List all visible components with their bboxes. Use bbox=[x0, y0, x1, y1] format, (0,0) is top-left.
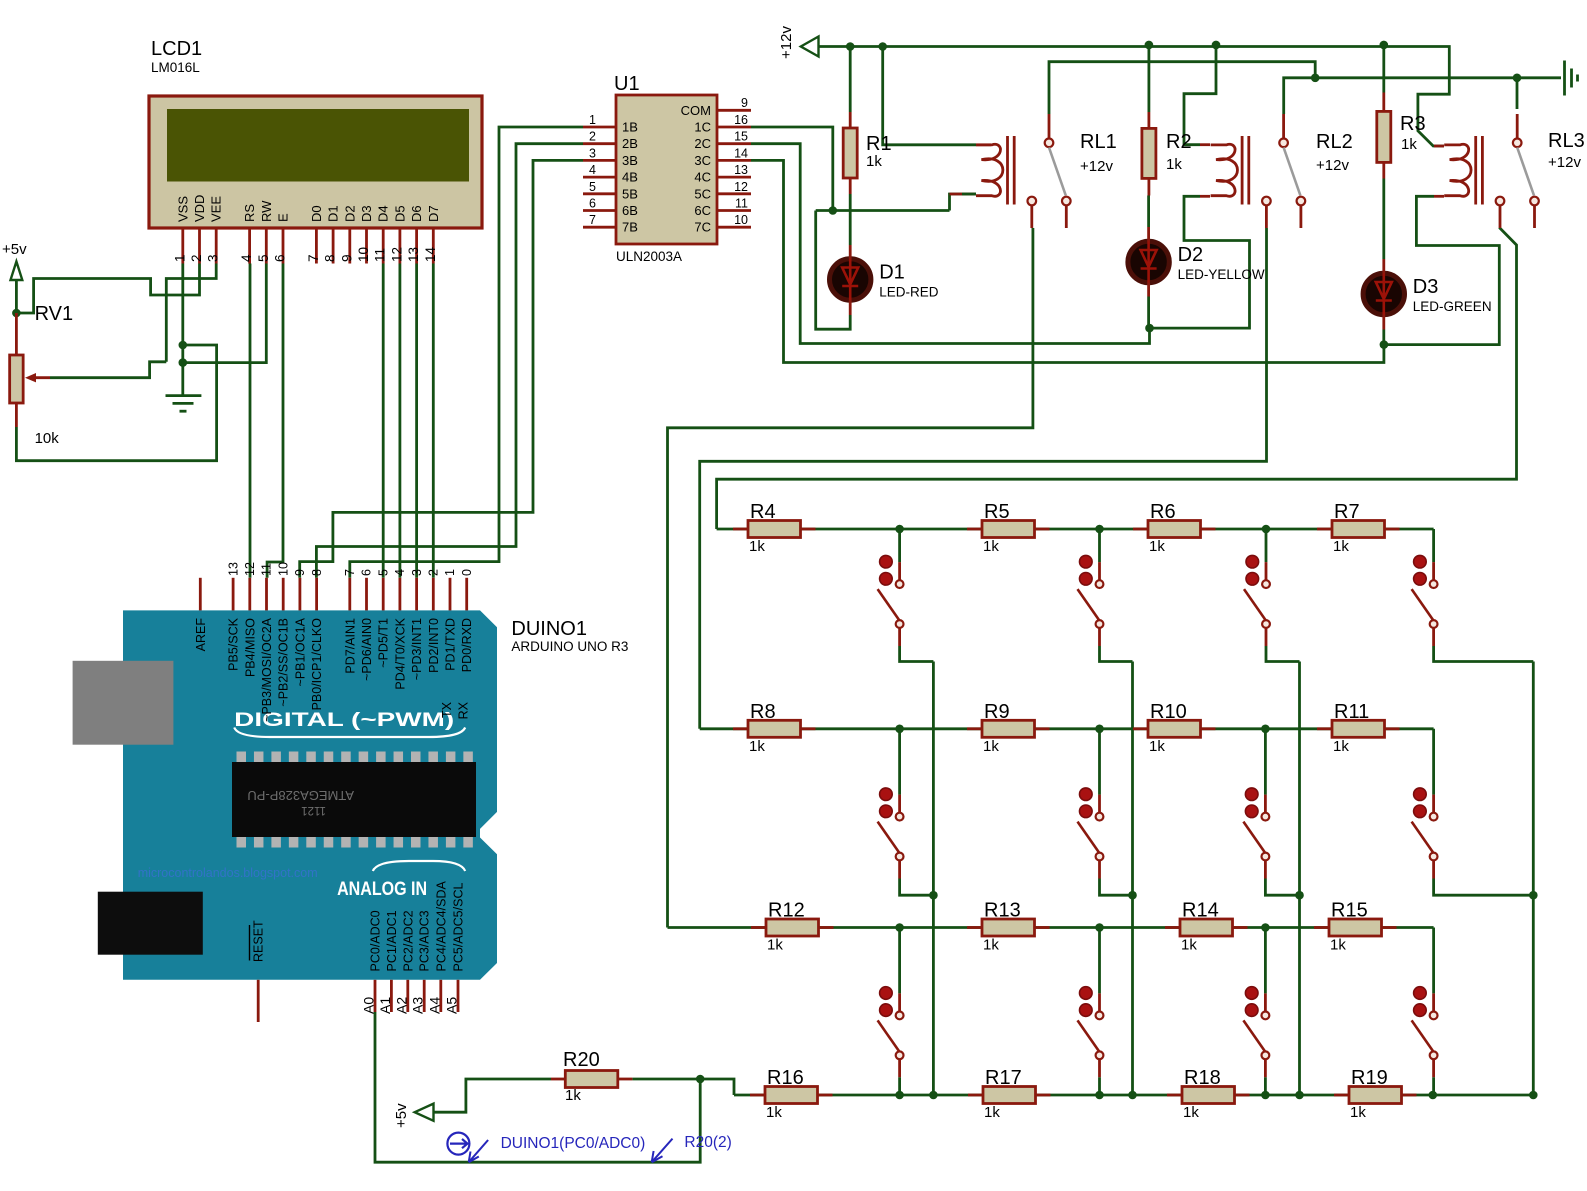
svg-text:1k: 1k bbox=[749, 738, 765, 755]
svg-text:1k: 1k bbox=[866, 153, 882, 170]
svg-text:14: 14 bbox=[423, 246, 438, 262]
svg-text:5: 5 bbox=[589, 180, 596, 194]
svg-text:10: 10 bbox=[734, 213, 748, 227]
svg-text:ATMEGA328P-PU: ATMEGA328P-PU bbox=[247, 788, 354, 803]
svg-text:2B: 2B bbox=[622, 136, 638, 151]
svg-text:1k: 1k bbox=[1333, 538, 1349, 555]
svg-text:11: 11 bbox=[735, 197, 748, 211]
svg-text:1k: 1k bbox=[983, 738, 999, 755]
svg-text:A4: A4 bbox=[426, 997, 442, 1014]
svg-text:15: 15 bbox=[734, 130, 748, 144]
svg-text:8: 8 bbox=[323, 254, 338, 262]
svg-text:PC0/ADC0: PC0/ADC0 bbox=[369, 910, 383, 971]
svg-text:R16: R16 bbox=[767, 1067, 804, 1089]
svg-text:RV1: RV1 bbox=[35, 303, 74, 325]
svg-text:R9: R9 bbox=[984, 701, 1010, 723]
svg-text:+12v: +12v bbox=[1080, 158, 1113, 175]
svg-text:9: 9 bbox=[339, 254, 354, 262]
svg-text:5: 5 bbox=[376, 569, 390, 576]
svg-text:PB5/SCK: PB5/SCK bbox=[227, 617, 241, 670]
svg-text:PD4/T0/XCK: PD4/T0/XCK bbox=[393, 617, 407, 689]
svg-text:1k: 1k bbox=[1330, 937, 1346, 954]
svg-text:12: 12 bbox=[243, 562, 257, 576]
svg-text:D7: D7 bbox=[426, 205, 441, 222]
svg-text:1k: 1k bbox=[1149, 538, 1165, 555]
svg-text:7: 7 bbox=[343, 569, 357, 576]
svg-text:R4: R4 bbox=[750, 501, 776, 523]
svg-text:+12v: +12v bbox=[1316, 157, 1349, 174]
svg-text:RL2: RL2 bbox=[1316, 131, 1353, 153]
svg-text:R5: R5 bbox=[984, 501, 1010, 523]
svg-text:9: 9 bbox=[741, 96, 748, 110]
svg-text:R14: R14 bbox=[1182, 900, 1219, 922]
svg-text:PC4/ADC4/SDA: PC4/ADC4/SDA bbox=[434, 881, 448, 972]
svg-text:D4: D4 bbox=[376, 205, 391, 222]
svg-text:R3: R3 bbox=[1400, 113, 1426, 135]
svg-text:R20: R20 bbox=[563, 1049, 600, 1071]
svg-text:PD0/RXD: PD0/RXD bbox=[460, 618, 474, 672]
svg-text:D1: D1 bbox=[879, 262, 905, 284]
svg-text:PC5/ADC5/SCL: PC5/ADC5/SCL bbox=[452, 883, 466, 972]
svg-text:4: 4 bbox=[393, 569, 407, 576]
svg-text:1k: 1k bbox=[1181, 937, 1197, 954]
svg-text:PC3/ADC3: PC3/ADC3 bbox=[418, 910, 432, 971]
svg-text:7: 7 bbox=[589, 213, 596, 227]
svg-text:D3: D3 bbox=[1413, 276, 1439, 298]
svg-text:PD2/INT0: PD2/INT0 bbox=[427, 618, 441, 673]
svg-text:R19: R19 bbox=[1351, 1067, 1388, 1089]
svg-text:1k: 1k bbox=[983, 937, 999, 954]
svg-text:AREF: AREF bbox=[194, 618, 208, 652]
svg-text:TX: TX bbox=[440, 701, 454, 718]
svg-text:5: 5 bbox=[256, 254, 271, 262]
svg-text:7C: 7C bbox=[694, 220, 711, 235]
svg-text:D2: D2 bbox=[1178, 244, 1204, 266]
svg-text:R7: R7 bbox=[1334, 501, 1360, 523]
svg-text:3: 3 bbox=[206, 254, 221, 262]
svg-text:VSS: VSS bbox=[175, 196, 190, 222]
svg-text:1k: 1k bbox=[1333, 738, 1349, 755]
svg-text:LED-RED: LED-RED bbox=[879, 285, 939, 300]
svg-text:microcontrolandos.blogspot.com: microcontrolandos.blogspot.com bbox=[138, 866, 318, 880]
svg-text:PD7/AIN1: PD7/AIN1 bbox=[343, 618, 357, 674]
svg-text:4: 4 bbox=[589, 163, 596, 177]
svg-text:LED-GREEN: LED-GREEN bbox=[1413, 299, 1492, 314]
svg-text:12: 12 bbox=[734, 180, 748, 194]
svg-text:3C: 3C bbox=[694, 153, 711, 168]
svg-text:2: 2 bbox=[189, 254, 204, 262]
svg-text:PC1/ADC1: PC1/ADC1 bbox=[385, 910, 399, 971]
svg-text:R12: R12 bbox=[768, 900, 805, 922]
svg-text:7: 7 bbox=[306, 254, 321, 262]
svg-text:ARDUINO UNO R3: ARDUINO UNO R3 bbox=[511, 639, 628, 654]
svg-text:4B: 4B bbox=[622, 170, 638, 185]
svg-text:A3: A3 bbox=[410, 997, 426, 1014]
svg-text:R6: R6 bbox=[1150, 501, 1176, 523]
svg-text:D3: D3 bbox=[359, 205, 374, 222]
svg-text:13: 13 bbox=[406, 247, 421, 262]
svg-text:10k: 10k bbox=[35, 430, 60, 447]
svg-text:12: 12 bbox=[389, 247, 404, 262]
svg-text:RW: RW bbox=[259, 200, 274, 222]
svg-text:A1: A1 bbox=[377, 997, 393, 1014]
svg-text:+12v: +12v bbox=[778, 26, 795, 59]
svg-text:RS: RS bbox=[242, 204, 257, 222]
svg-text:6: 6 bbox=[360, 569, 374, 576]
svg-text:PB4/MISO: PB4/MISO bbox=[243, 618, 257, 677]
svg-text:1C: 1C bbox=[694, 120, 711, 135]
svg-text:1k: 1k bbox=[1350, 1104, 1366, 1121]
svg-text:E: E bbox=[276, 213, 291, 222]
svg-text:13: 13 bbox=[734, 163, 748, 177]
svg-text:VDD: VDD bbox=[192, 195, 207, 222]
svg-text:1: 1 bbox=[172, 254, 187, 262]
svg-text:3: 3 bbox=[589, 146, 596, 160]
svg-text:A2: A2 bbox=[393, 997, 409, 1014]
svg-text:DUINO1(PC0/ADC0): DUINO1(PC0/ADC0) bbox=[501, 1135, 646, 1152]
svg-text:~PD6/AIN0: ~PD6/AIN0 bbox=[360, 618, 374, 681]
svg-text:1k: 1k bbox=[767, 937, 783, 954]
svg-text:1k: 1k bbox=[1149, 738, 1165, 755]
svg-text:D5: D5 bbox=[392, 205, 407, 222]
svg-text:D2: D2 bbox=[342, 205, 357, 222]
svg-text:U1: U1 bbox=[614, 73, 640, 95]
svg-text:6C: 6C bbox=[694, 203, 711, 218]
svg-text:1: 1 bbox=[589, 113, 596, 127]
svg-text:6: 6 bbox=[589, 197, 596, 211]
svg-text:R15: R15 bbox=[1331, 900, 1368, 922]
svg-text:RESET: RESET bbox=[252, 920, 266, 962]
svg-text:+5v: +5v bbox=[393, 1103, 410, 1128]
svg-text:3B: 3B bbox=[622, 153, 638, 168]
svg-text:11: 11 bbox=[373, 248, 388, 262]
svg-text:R10: R10 bbox=[1150, 701, 1187, 723]
svg-text:RX: RX bbox=[457, 701, 471, 719]
svg-text:PC2/ADC2: PC2/ADC2 bbox=[401, 910, 415, 971]
svg-text:DUINO1: DUINO1 bbox=[511, 618, 587, 640]
svg-text:1k: 1k bbox=[565, 1087, 581, 1104]
svg-text:R2: R2 bbox=[1166, 131, 1192, 153]
svg-text:3: 3 bbox=[410, 569, 424, 576]
svg-text:ANALOG IN: ANALOG IN bbox=[337, 879, 427, 900]
svg-text:~PD3/INT1: ~PD3/INT1 bbox=[410, 618, 424, 680]
svg-text:VEE: VEE bbox=[209, 196, 224, 222]
svg-text:6B: 6B bbox=[622, 203, 638, 218]
svg-text:R17: R17 bbox=[985, 1067, 1022, 1089]
svg-text:1k: 1k bbox=[984, 1104, 1000, 1121]
svg-text:+5v: +5v bbox=[2, 241, 27, 258]
svg-text:8: 8 bbox=[310, 569, 324, 576]
svg-text:~PB1/OC1A: ~PB1/OC1A bbox=[293, 617, 307, 686]
svg-text:D1: D1 bbox=[326, 205, 341, 222]
svg-text:2C: 2C bbox=[694, 136, 711, 151]
svg-text:10: 10 bbox=[276, 562, 290, 576]
svg-text:6: 6 bbox=[273, 254, 288, 262]
svg-text:A5: A5 bbox=[444, 997, 460, 1014]
svg-text:A0: A0 bbox=[361, 997, 377, 1014]
svg-text:1k: 1k bbox=[1166, 156, 1182, 173]
svg-text:7B: 7B bbox=[622, 220, 638, 235]
svg-text:R20(2): R20(2) bbox=[684, 1134, 731, 1151]
svg-text:D6: D6 bbox=[409, 205, 424, 222]
svg-text:PB0/ICP1/CLKO: PB0/ICP1/CLKO bbox=[310, 618, 324, 711]
svg-text:2: 2 bbox=[427, 569, 441, 576]
svg-text:11: 11 bbox=[260, 563, 274, 576]
svg-text:1: 1 bbox=[443, 569, 457, 576]
svg-text:1k: 1k bbox=[1183, 1104, 1199, 1121]
svg-text:LM016L: LM016L bbox=[151, 60, 200, 75]
svg-text:16: 16 bbox=[734, 113, 748, 127]
svg-text:COM: COM bbox=[681, 103, 711, 118]
svg-text:10: 10 bbox=[356, 247, 371, 262]
svg-text:13: 13 bbox=[226, 562, 240, 576]
svg-text:R1: R1 bbox=[866, 133, 892, 155]
svg-text:5B: 5B bbox=[622, 186, 638, 201]
svg-text:4: 4 bbox=[239, 254, 254, 262]
svg-text:~PB3/MOSI/OC2A: ~PB3/MOSI/OC2A bbox=[260, 617, 274, 722]
svg-text:5C: 5C bbox=[694, 186, 711, 201]
svg-text:0: 0 bbox=[460, 569, 474, 576]
svg-text:~PD5/T1: ~PD5/T1 bbox=[377, 618, 391, 668]
svg-text:D0: D0 bbox=[309, 205, 324, 222]
svg-text:9: 9 bbox=[293, 569, 307, 576]
svg-text:RL3: RL3 bbox=[1548, 130, 1585, 152]
svg-text:14: 14 bbox=[734, 146, 748, 160]
svg-text:1121: 1121 bbox=[301, 804, 326, 816]
svg-text:ULN2003A: ULN2003A bbox=[616, 249, 682, 264]
svg-text:R13: R13 bbox=[984, 900, 1021, 922]
svg-text:2: 2 bbox=[589, 130, 596, 144]
svg-text:1k: 1k bbox=[983, 538, 999, 555]
svg-text:1k: 1k bbox=[766, 1104, 782, 1121]
svg-text:1B: 1B bbox=[622, 120, 638, 135]
svg-text:R8: R8 bbox=[750, 701, 776, 723]
svg-text:+12v: +12v bbox=[1548, 154, 1581, 171]
svg-text:PD1/TXD: PD1/TXD bbox=[444, 618, 458, 671]
svg-text:4C: 4C bbox=[694, 170, 711, 185]
svg-text:RL1: RL1 bbox=[1080, 131, 1117, 153]
svg-text:R18: R18 bbox=[1184, 1067, 1221, 1089]
svg-text:~PB2/SS/OC1B: ~PB2/SS/OC1B bbox=[277, 618, 291, 707]
svg-text:R11: R11 bbox=[1334, 701, 1369, 723]
svg-text:LED-YELLOW: LED-YELLOW bbox=[1178, 267, 1265, 282]
svg-text:1k: 1k bbox=[749, 538, 765, 555]
svg-text:LCD1: LCD1 bbox=[151, 38, 202, 60]
svg-text:1k: 1k bbox=[1401, 136, 1417, 153]
